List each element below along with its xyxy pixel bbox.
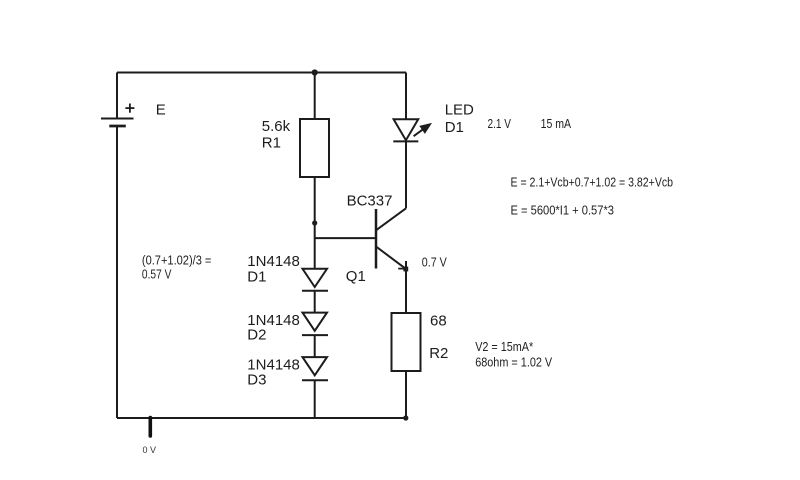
resistor R1 <box>300 119 329 177</box>
svg-text:0 V: 0 V <box>143 445 157 455</box>
svg-text:15 mA: 15 mA <box>541 116 572 131</box>
svg-text:E: E <box>156 102 166 119</box>
wire: D1 to D2 <box>314 291 316 313</box>
transistor Q1: emitter lead with arrow <box>376 247 406 269</box>
svg-text:R1: R1 <box>262 135 281 152</box>
wire: D2 to D3 <box>314 335 316 357</box>
node: junction dot on bottom rail <box>403 415 408 420</box>
svg-text:(0.7+1.02)/3 =: (0.7+1.02)/3 = <box>142 252 212 267</box>
transistor Q1: collector lead <box>376 208 406 230</box>
svg-text:68: 68 <box>430 312 447 329</box>
resistor R2 <box>392 313 421 371</box>
wire: emitter node down to R2 <box>405 261 407 313</box>
node: emitter junction dot <box>403 267 408 272</box>
ground reference stub <box>149 418 153 437</box>
LED D1 symbol <box>393 119 418 141</box>
svg-text:R2: R2 <box>429 345 448 362</box>
svg-text:0.7 V: 0.7 V <box>422 254 447 269</box>
svg-text:D1: D1 <box>445 119 464 136</box>
svg-text:68ohm = 1.02 V: 68ohm = 1.02 V <box>475 354 552 369</box>
svg-text:BC337: BC337 <box>347 192 393 209</box>
wire: R1 bottom lead down to diode chain <box>314 177 316 269</box>
wire: battery positive lead <box>116 73 118 119</box>
battery E: positive plate <box>101 118 134 120</box>
svg-text:E = 2.1+Vcb+0.7+1.02 = 3.82+Vc: E = 2.1+Vcb+0.7+1.02 = 3.82+Vcb <box>511 174 674 189</box>
diode D2 (1N4148) <box>302 313 328 336</box>
wire: R2 bottom lead <box>405 371 407 418</box>
svg-text:E = 5600*I1 + 0.57*3: E = 5600*I1 + 0.57*3 <box>511 203 615 218</box>
svg-text:0.57 V: 0.57 V <box>142 267 172 282</box>
svg-text:D2: D2 <box>247 327 266 344</box>
wire: bottom rail (0 V net) <box>117 417 408 419</box>
wire: LED cathode to Q1 collector <box>405 141 407 208</box>
node: junction dot at base branch <box>312 220 317 225</box>
svg-text:5.6k: 5.6k <box>262 118 291 135</box>
battery polarity mark + <box>125 104 134 113</box>
node: junction dot on top rail <box>312 69 318 75</box>
svg-text:D3: D3 <box>247 372 266 389</box>
diode D3 (1N4148) <box>302 357 328 380</box>
svg-text:Q1: Q1 <box>346 268 366 285</box>
wire: top rail <box>117 72 406 74</box>
wire: D3 to bottom rail <box>314 380 316 418</box>
wire: R1 top lead <box>314 73 316 120</box>
wire: battery negative lead <box>116 127 118 419</box>
svg-text:LED: LED <box>445 102 474 119</box>
wire: base wire to Q1 <box>315 237 376 239</box>
diode D1 (1N4148) <box>302 269 328 291</box>
svg-text:D1: D1 <box>247 268 266 285</box>
LED light arrow <box>414 123 432 136</box>
transistor Q1 (BC337): base bar <box>375 209 378 269</box>
wire: LED branch top lead <box>405 73 407 120</box>
battery E: negative plate <box>109 125 126 128</box>
svg-text:V2 = 15mA*: V2 = 15mA* <box>475 339 533 354</box>
svg-text:2.1 V: 2.1 V <box>488 116 512 131</box>
